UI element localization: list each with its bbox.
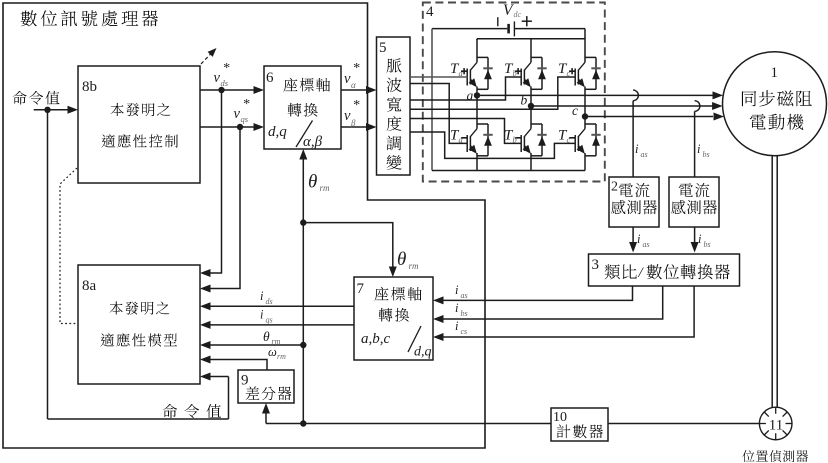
wire i_bs ADC to 7 — [443, 286, 663, 319]
wire phase c to motor — [585, 116, 713, 118]
svg-text:dc: dc — [514, 10, 522, 19]
battery minus tick — [497, 17, 499, 26]
arrowhead θ_rm into 6 — [299, 149, 307, 160]
arrowhead into block 9 — [262, 403, 270, 414]
gate net T_b- — [410, 119, 522, 144]
wire encoder to counter — [608, 423, 759, 425]
IGBT T_a- with freewheel diode — [476, 95, 478, 128]
text 感測器 (sensor a) — [611, 200, 625, 214]
svg-text:3: 3 — [592, 257, 600, 273]
junction θ to 8a — [300, 342, 306, 348]
svg-text:ds: ds — [266, 297, 273, 306]
wire phase b to motor — [531, 105, 713, 107]
arrowhead v*α into 5 — [366, 86, 377, 94]
text 計數器 (block 10) — [557, 424, 571, 438]
IGBT T_c+ with freewheel diode — [584, 29, 586, 63]
svg-text:i: i — [637, 232, 641, 246]
svg-text:i: i — [455, 301, 459, 315]
svg-text:d,q: d,q — [268, 124, 287, 140]
wire v*qs tap down to 8a — [210, 127, 240, 289]
svg-text:d,q: d,q — [414, 345, 432, 360]
svg-text:ω: ω — [268, 345, 277, 359]
text 適應性控制 (8b) — [101, 134, 115, 147]
svg-text:v: v — [344, 71, 351, 87]
block 8a adaptive model box — [78, 265, 200, 384]
svg-text:α: α — [351, 80, 356, 90]
svg-text:cs: cs — [461, 327, 468, 336]
wire sensor-b to ADC — [694, 227, 696, 243]
svg-text:8b: 8b — [82, 79, 97, 95]
label: DSP 數位訊號處理器 — [21, 10, 37, 26]
arrowhead i_bs into 7 — [433, 315, 444, 323]
svg-text:7: 7 — [357, 281, 365, 297]
wire v*ds tap down to 8a — [210, 90, 222, 273]
svg-text:qs: qs — [241, 114, 249, 124]
current sensor box (phase b) — [669, 177, 719, 227]
wire: command value into 8b — [34, 109, 69, 111]
arrowhead v*qs into 8a — [200, 285, 211, 293]
arrowhead i_cs into 7 — [433, 333, 444, 341]
svg-text:i: i — [260, 289, 264, 303]
block 9 differentiator box — [238, 370, 294, 403]
wire counter to θ vertical — [266, 423, 551, 425]
IGBT T_b+ with freewheel diode — [530, 39, 532, 63]
block 6 coordinate transform box — [264, 66, 341, 149]
gate net T_a+ — [410, 76, 468, 78]
svg-text:v: v — [214, 70, 221, 86]
svg-text:θ: θ — [397, 249, 406, 270]
arrowhead into 8b (command) — [68, 106, 79, 114]
battery positive plate — [513, 21, 515, 36]
gate net T_a- — [410, 84, 468, 144]
text 座標軸 (block 6) — [283, 78, 297, 92]
text 脈波寬度調變 (block 5, vertical) — [386, 58, 401, 72]
wire a-leg top — [476, 39, 478, 40]
svg-text:bs: bs — [703, 150, 710, 159]
text 電流 (sensor b) — [679, 183, 693, 197]
wire i_qs 7 to 8a — [210, 324, 354, 326]
battery negative plate — [507, 24, 510, 34]
wire θ_rm to 8a — [210, 344, 303, 346]
svg-text:i: i — [635, 142, 639, 156]
svg-text:2: 2 — [611, 180, 618, 195]
svg-text:β: β — [350, 118, 356, 128]
text 命令值 (command value, bottom) — [162, 404, 177, 418]
wire v*β 6 to 5 — [341, 126, 367, 128]
svg-text:5: 5 — [379, 40, 387, 56]
svg-text:θ: θ — [308, 172, 317, 193]
wire i_ds 7 to 8a — [210, 305, 354, 307]
arrowhead θ_rm into 8a — [200, 341, 211, 349]
svg-text:*: * — [353, 61, 360, 76]
svg-text:as: as — [461, 291, 468, 300]
svg-text:10: 10 — [553, 410, 567, 425]
text 同步磁阻 (motor) — [742, 91, 756, 106]
svg-text:i: i — [698, 232, 702, 246]
svg-text:ds: ds — [221, 78, 229, 88]
svg-text:v: v — [234, 106, 241, 122]
svg-text:a,b,c: a,b,c — [361, 331, 391, 347]
svg-text:*: * — [353, 98, 360, 113]
text 電流 (sensor a) — [619, 183, 633, 197]
wire phase a to motor — [477, 94, 713, 96]
svg-text:rm: rm — [320, 183, 331, 193]
block 8b adaptive control box — [78, 66, 200, 183]
text 感測器 (sensor b) — [671, 200, 685, 214]
wire θ_rm main vertical — [302, 158, 304, 424]
svg-text:bs: bs — [704, 240, 711, 249]
arrowhead phase c into motor — [714, 113, 725, 121]
text 位置偵測器 (position detector) — [742, 450, 754, 462]
arrowhead θ_rm into 7 — [389, 267, 397, 278]
wire: battery negative drop — [431, 29, 433, 171]
svg-text:V: V — [503, 2, 514, 19]
svg-text:qs: qs — [266, 316, 273, 325]
text 座標軸 (block 7) — [374, 287, 388, 301]
wire: command value down-feed — [47, 110, 49, 419]
svg-text:i: i — [455, 319, 459, 333]
DSP boundary box (digital signal processor region) — [3, 3, 485, 448]
current sensor box (phase a), ref 2 — [609, 177, 659, 227]
battery wire left — [432, 28, 507, 30]
motor shaft double line — [771, 156, 773, 408]
wire θ_rm branch to 7 — [303, 223, 393, 268]
arrowhead ω_rm into 8a — [200, 356, 211, 364]
text 電動機 (motor) — [750, 114, 766, 129]
gate net T_c- — [410, 132, 576, 158]
wire sensor-a to ADC — [632, 227, 634, 243]
svg-text:α,β: α,β — [303, 134, 323, 150]
arrowhead into 8a (command) — [200, 373, 211, 381]
text 轉換 (block 7) — [379, 308, 393, 322]
wire: command rise to 8a — [228, 377, 230, 420]
arrowhead v*ds into 8a — [200, 269, 211, 277]
CT hook on phase a — [633, 90, 638, 101]
arrowhead phase b into motor — [712, 102, 723, 110]
wire rise into block 9 — [265, 412, 267, 424]
battery wire right — [514, 28, 585, 30]
svg-text:θ: θ — [263, 329, 270, 344]
svg-text:bs: bs — [461, 309, 468, 318]
junction dot v*ds — [218, 87, 224, 93]
wire v*qs 8b to 6 — [200, 126, 255, 128]
arrowhead i_qs into 8a — [200, 321, 211, 329]
svg-text:*: * — [243, 97, 250, 112]
svg-text:11: 11 — [769, 418, 783, 434]
svg-text:as: as — [643, 240, 650, 249]
svg-text:6: 6 — [266, 70, 274, 86]
arrowhead i_ds into 8a — [200, 302, 211, 310]
block 3 A/D converter box — [589, 254, 740, 286]
dashed box 4 (inverter) — [423, 3, 605, 182]
svg-text:8a: 8a — [82, 278, 97, 294]
arrowhead v*β into 5 — [366, 123, 377, 131]
gate net T_c+ — [410, 77, 576, 109]
text 差分器 (block 9) — [246, 386, 260, 400]
wire sensor-b drop — [694, 111, 696, 177]
node a dot — [474, 92, 480, 98]
wire ω_rm 9 to 8a — [210, 360, 267, 371]
wire: command into 8a — [210, 376, 229, 378]
encoder tick marks — [775, 407, 777, 414]
wire v*ds 8b to 6 — [200, 89, 255, 91]
arrowhead v*ds into 6 — [254, 86, 265, 94]
svg-text:a: a — [467, 88, 474, 103]
junction dot on command line — [44, 107, 50, 113]
motor circle, synchronous reluctance motor — [723, 52, 827, 156]
text 本發明之 (8a) — [110, 301, 123, 314]
slash (block 7) — [408, 326, 421, 352]
slash (block 6) — [296, 121, 313, 148]
svg-text:v: v — [344, 108, 351, 124]
svg-text:i: i — [697, 142, 701, 156]
svg-text:rm: rm — [277, 352, 286, 361]
arrowhead into ADC (i_as) — [629, 242, 637, 253]
text 命令值 (command value, left) — [12, 91, 26, 105]
node b dot — [528, 103, 534, 109]
junction dot v*qs — [237, 124, 243, 130]
IGBT T_c- with freewheel diode — [584, 117, 586, 129]
block 10 counter box — [551, 408, 608, 441]
battery plus sign — [522, 20, 532, 22]
CT hook on phase b — [695, 101, 700, 112]
block 5 PWM box — [377, 37, 411, 175]
svg-text:*: * — [223, 61, 230, 76]
wire: DC bottom rail — [432, 170, 585, 172]
wire i_as ADC to 7 — [443, 286, 633, 300]
wire i_cs ADC to 7 — [443, 286, 694, 337]
IGBT T_b- with freewheel diode — [530, 106, 532, 129]
gate net T_b+ — [410, 77, 522, 100]
junction θ branch to 7 — [300, 219, 306, 225]
position encoder circle, ref 11 — [759, 407, 792, 440]
arrowhead v*qs into 6 — [254, 123, 265, 131]
arrowhead into ADC (i_bs) — [691, 242, 699, 253]
text 適應性模型 (8a) — [100, 333, 114, 346]
node c dot — [582, 113, 588, 119]
wire: command bottom run — [48, 418, 229, 420]
svg-text:rm: rm — [409, 261, 420, 271]
arrowhead phase a into motor — [713, 91, 724, 99]
IGBT T_a+ with freewheel diode — [476, 39, 478, 63]
junction dot on counter line — [300, 420, 306, 426]
block 7 coordinate transform box — [354, 277, 433, 360]
text 本發明之 (8b) — [111, 103, 124, 116]
arrowhead i_as into 7 — [433, 296, 444, 304]
svg-text:as: as — [641, 150, 648, 159]
svg-text:1: 1 — [771, 65, 779, 81]
text 類比/數位轉換器 (block 3) — [605, 264, 620, 279]
svg-text:4: 4 — [426, 4, 434, 20]
text 轉換 (block 6) — [288, 103, 302, 117]
svg-text:i: i — [455, 283, 459, 297]
svg-text:9: 9 — [241, 373, 249, 389]
svg-text:i: i — [260, 308, 264, 322]
wire v*α 6 to 5 — [341, 89, 367, 91]
wire: DC top rail 2 — [477, 38, 585, 40]
dotted link 8b to 8a — [60, 168, 78, 324]
wire sensor-a drop — [632, 101, 634, 177]
dashed arrow out of 8b top right — [201, 53, 212, 65]
